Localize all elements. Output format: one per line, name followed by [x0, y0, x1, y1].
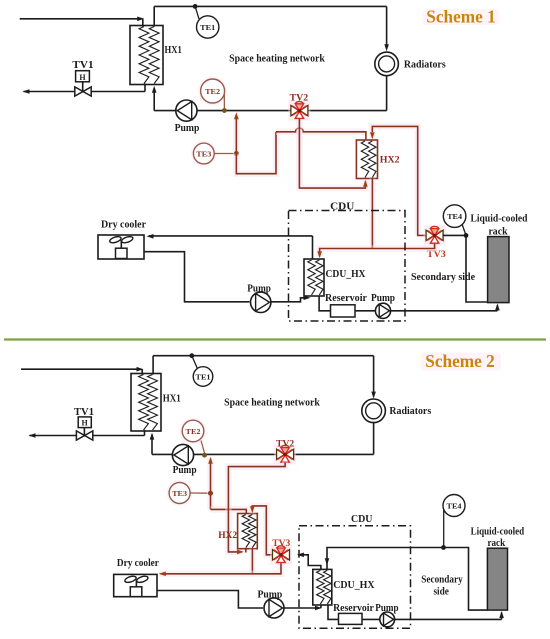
- pump P-CDU: [375, 303, 390, 318]
- label Pump drycooler: [247, 284, 271, 295]
- heat exchanger HX1: [130, 26, 163, 85]
- svg-text:HX1: HX1: [163, 394, 181, 405]
- heat exchanger CDU_HX (s2): [313, 569, 332, 605]
- wire HX1 outlet to TV1 and district return arrow: [23, 84, 146, 94]
- wire HX2 right coil top to TV3 (s2): [250, 506, 273, 555]
- svg-text:HX2: HX2: [218, 531, 237, 541]
- sensor TE4 (s2): [443, 495, 465, 517]
- svg-text:TE3: TE3: [196, 149, 211, 158]
- sensor TE1 (s2): [193, 367, 213, 387]
- svg-text:Scheme 1: Scheme 1: [426, 7, 495, 27]
- svg-text:rack: rack: [488, 227, 508, 238]
- svg-text:Pump: Pump: [257, 590, 282, 601]
- svg-text:CDU_HX: CDU_HX: [333, 580, 375, 591]
- wire space-heating top line (s2): [153, 356, 374, 375]
- svg-text:TV1: TV1: [74, 407, 94, 418]
- wire TE1 connector: [195, 7, 199, 19]
- radiators symbol (s2): [362, 399, 386, 423]
- node TE2 junction dot (s2): [202, 453, 207, 458]
- wire TE4 connector (s2): [443, 510, 445, 548]
- svg-text:TV1: TV1: [72, 60, 93, 71]
- wire dry cooler outlet to pump: [144, 252, 250, 302]
- svg-text:TE4: TE4: [447, 212, 462, 221]
- wire dry cooler supply from CDU_HX top: [147, 234, 313, 259]
- wire radiators return to pump line (s2): [152, 423, 374, 455]
- svg-text:CDU_HX: CDU_HX: [326, 269, 367, 280]
- svg-text:Space heating network: Space heating network: [229, 54, 325, 65]
- valve TV2: [288, 101, 310, 121]
- wire dry cooler outlet to pump (s2): [157, 591, 263, 609]
- radiators symbol: [375, 52, 399, 76]
- sensor TE2 (s2): [180, 418, 207, 453]
- node TE2 junction dot: [222, 108, 227, 113]
- wire rack line to CDU_HX top with arrow (s2): [325, 548, 444, 570]
- wire CDU_HX to reservoir: [319, 296, 330, 311]
- svg-text:CDU: CDU: [330, 202, 354, 213]
- pump P-heating: [176, 100, 197, 121]
- sensor TE3: [191, 141, 234, 167]
- reservoir (s2): [339, 613, 363, 624]
- wire HX1 outlet to TV1 (s2): [29, 430, 145, 438]
- CDU dash-dot enclosure: [289, 211, 406, 322]
- wire HX2 supply from TE branch with hop over TV2 drop: [276, 128, 366, 139]
- wire TE branch to HX2 top (s2): [211, 509, 247, 513]
- wire reservoir to CDU pump: [355, 310, 376, 312]
- svg-text:Pump: Pump: [247, 284, 271, 295]
- heat exchanger HX2: [356, 140, 377, 179]
- svg-text:CDU: CDU: [351, 514, 373, 525]
- label CDU_HX: [326, 269, 367, 280]
- dry cooler: [98, 235, 144, 259]
- wire pump-line riser into HX1 bottom: [152, 86, 157, 111]
- sensor TE4: [443, 205, 466, 228]
- svg-text:Pump: Pump: [175, 123, 200, 134]
- label Reservoir: [325, 293, 368, 304]
- wire CDU_HX to reservoir (s2): [328, 605, 339, 619]
- valve TV1: [75, 71, 91, 96]
- wire radiator drop (s2): [371, 356, 376, 399]
- wire TV3 right port from rack branch (s2): [297, 553, 321, 570]
- dry cooler (s2): [114, 574, 157, 596]
- svg-text:Scheme 2: Scheme 2: [425, 351, 494, 371]
- wire CDU pump to rack bottom (s2): [395, 611, 504, 619]
- label Radiators (s2): [389, 406, 431, 417]
- label Radiators: [404, 59, 446, 70]
- svg-text:Pump: Pump: [371, 293, 395, 304]
- label CDU_HX (s2): [333, 580, 375, 591]
- svg-text:Radiators: Radiators: [404, 59, 446, 70]
- svg-text:rack: rack: [487, 538, 505, 549]
- label TV3 (s2): [272, 539, 290, 549]
- label Pump drycooler (s2): [257, 590, 282, 601]
- svg-text:TE2: TE2: [186, 427, 201, 436]
- label Secondary side: [411, 272, 476, 283]
- label TV2: [290, 93, 309, 103]
- liquid-cooled rack (s2): [487, 548, 507, 610]
- label HX2 (s2): [218, 531, 237, 541]
- svg-text:Liquid-cooled: Liquid-cooled: [471, 214, 528, 225]
- label TV3: [427, 250, 446, 260]
- wire radiator drop: [384, 6, 389, 51]
- valve TV3 (s2): [270, 545, 292, 565]
- label Pump CDU (s2): [375, 603, 399, 614]
- node junction on top line (s2): [189, 353, 194, 358]
- svg-text:HX1: HX1: [165, 45, 182, 56]
- wire reservoir to CDU pump (s2): [362, 618, 380, 620]
- wire HX2 right coil bottom down to CDU supply line: [369, 179, 376, 249]
- label Scheme 2: [421, 351, 501, 371]
- svg-text:TE3: TE3: [172, 489, 187, 498]
- label Liquid-cooled rack: [471, 214, 528, 238]
- pump P-drycooler: [251, 292, 271, 312]
- label Secondary side (s2): [421, 575, 462, 598]
- svg-text:Reservoir: Reservoir: [333, 603, 374, 614]
- sensor TE3 (s2): [167, 480, 208, 506]
- node rack-TE4 junction dot (s2): [441, 545, 446, 550]
- node rack-TE4 junction dot: [464, 233, 469, 238]
- wire TV2 bottom port down and to HX2 bottom: [299, 119, 367, 188]
- wire pump to CDU_HX bottom with arrow: [271, 296, 311, 302]
- pump P-CDU (s2): [380, 612, 395, 627]
- svg-text:Liquid-cooled: Liquid-cooled: [471, 526, 525, 537]
- svg-text:side: side: [433, 586, 449, 597]
- svg-text:Secondary: Secondary: [421, 575, 462, 586]
- sensor TE2: [198, 77, 227, 109]
- label HX1: [165, 45, 182, 56]
- wire HX2 return riser with arrow (s2): [208, 457, 213, 510]
- wire HX2 return path to riser: [236, 132, 276, 174]
- svg-text:Secondary side: Secondary side: [411, 272, 476, 283]
- wire HX2 right coil bottom to dry cooler return (s2): [249, 549, 256, 574]
- node junction on top line: [193, 4, 198, 9]
- pump P-drycooler (s2): [264, 598, 284, 618]
- svg-text:TV3: TV3: [272, 539, 290, 549]
- label Dry cooler (s2): [117, 558, 160, 569]
- label TV2 (s2): [276, 440, 294, 450]
- liquid-cooled rack: [488, 237, 509, 303]
- label HX1 (s2): [163, 394, 181, 405]
- wire radiators return to pump line: [154, 76, 386, 111]
- svg-text:Dry cooler: Dry cooler: [117, 558, 160, 569]
- sensor TE1: [197, 16, 219, 38]
- label TV1: [72, 60, 93, 71]
- label Pump heating (s2): [173, 465, 197, 476]
- svg-text:H: H: [81, 419, 88, 428]
- reservoir: [331, 305, 356, 317]
- scheme separator line: [4, 338, 546, 340]
- valve TV1 (s2): [76, 417, 92, 440]
- wire district-heating supply line into HX1 (s2): [21, 367, 144, 375]
- label CDU: [330, 202, 354, 213]
- label Liquid-cooled rack (s2): [471, 526, 525, 548]
- svg-text:H: H: [79, 73, 86, 82]
- svg-text:TV2: TV2: [276, 440, 294, 450]
- node TE3 junction dot: [234, 151, 239, 156]
- CDU dash-dot enclosure (s2): [299, 526, 411, 629]
- label TV1 (s2): [74, 407, 94, 418]
- wire TV3 bottom to CDU_HX supply: [317, 244, 434, 258]
- heat exchanger HX2 (s2): [238, 514, 258, 549]
- svg-text:Pump: Pump: [375, 603, 399, 614]
- wire TV3 bottom to dry cooler with arrow (s2): [159, 563, 281, 576]
- label Scheme 1: [423, 7, 499, 27]
- wire HX2 return riser with arrow into pump line: [234, 112, 239, 153]
- wire HX2 right coil top from CDU riser: [370, 126, 426, 235]
- svg-text:Space heating network: Space heating network: [224, 397, 320, 408]
- valve TV2 (s2): [274, 444, 296, 464]
- svg-text:TE4: TE4: [447, 501, 462, 510]
- label Dry cooler: [101, 219, 147, 230]
- wire TE4 connector: [462, 224, 466, 235]
- wire pump-line riser into HX1 bottom (s2): [150, 433, 155, 455]
- svg-text:Dry cooler: Dry cooler: [101, 219, 147, 230]
- wire TV2 bottom port to HX2 bottom (s2): [228, 462, 285, 554]
- svg-text:TE1: TE1: [196, 372, 211, 381]
- label Pump heating: [175, 123, 200, 134]
- valve TV3: [424, 225, 446, 245]
- svg-text:Reservoir: Reservoir: [325, 293, 368, 304]
- wire TE1 connector (s2): [192, 356, 198, 369]
- label HX2: [380, 156, 400, 166]
- node TE3 junction dot (s2): [208, 491, 213, 496]
- label Pump CDU: [371, 293, 395, 304]
- wire district-heating supply line into HX1: [20, 17, 145, 27]
- svg-text:Pump: Pump: [173, 465, 197, 476]
- wire pump to CDU_HX bottom with arrow (s2): [284, 605, 322, 610]
- pump P-heating (s2): [172, 444, 193, 465]
- svg-text:HX2: HX2: [380, 156, 400, 166]
- label Space heating network (s2): [224, 397, 320, 408]
- svg-text:TE1: TE1: [200, 23, 215, 32]
- wire CDU pump to rack bottom: [391, 303, 500, 310]
- svg-text:TE2: TE2: [205, 87, 220, 96]
- heat exchanger CDU_HX: [304, 259, 324, 296]
- label Space heating network: [229, 54, 325, 65]
- label CDU (s2): [351, 514, 373, 525]
- wire space-heating top line: [154, 6, 386, 26]
- svg-text:TV2: TV2: [290, 93, 309, 103]
- svg-text:Radiators: Radiators: [389, 406, 431, 417]
- wire rack return to TV3: [443, 235, 488, 302]
- wire rack return loop (s2): [444, 548, 488, 611]
- label Reservoir (s2): [333, 603, 374, 614]
- heat exchanger HX1 (s2): [131, 374, 161, 432]
